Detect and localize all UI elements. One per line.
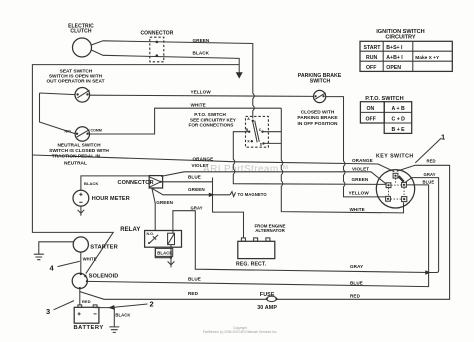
svg-text:SWITCH IS CLOSED WITH: SWITCH IS CLOSED WITH: [49, 148, 109, 154]
ground (starter): [34, 254, 44, 260]
label black (relay, boxed): [156, 248, 173, 256]
svg-text:1: 1: [441, 132, 445, 141]
svg-text:STARTER: STARTER: [90, 244, 118, 250]
svg-text:NEUTRAL SWITCH: NEUTRAL SWITCH: [57, 142, 101, 148]
wire green: clutch to PTO switch A: [91, 41, 254, 119]
wire violet: connector to key switch X: [161, 172, 386, 184]
svg-text:BLACK: BLACK: [193, 50, 210, 55]
svg-text:GREEN: GREEN: [352, 177, 369, 182]
svg-text:RELAY: RELAY: [120, 227, 140, 233]
svg-text:GRAY: GRAY: [350, 264, 363, 269]
svg-text:TRACTION PEDAL IN: TRACTION PEDAL IN: [52, 154, 101, 160]
wire green: PTO B to key switch X: [233, 132, 386, 185]
svg-text:RED: RED: [188, 291, 199, 296]
svg-text:3: 3: [46, 307, 50, 316]
svg-text:SEAT SWITCH: SEAT SWITCH: [60, 68, 93, 74]
svg-text:ALTERNATOR: ALTERNATOR: [255, 228, 285, 233]
svg-text:SWITCH IS OPEN WITH: SWITCH IS OPEN WITH: [49, 74, 103, 80]
svg-text:2: 2: [150, 299, 154, 308]
svg-text:CLOSED WITH: CLOSED WITH: [301, 109, 335, 115]
svg-text:Make X +Y: Make X +Y: [415, 55, 440, 61]
junction arrow (green/blue node): [209, 193, 214, 197]
svg-text:WHITE: WHITE: [83, 257, 97, 262]
wire black: clutch to chassis arrow: [91, 50, 239, 73]
wire gray: relay coil to gray rail: [173, 211, 430, 273]
wire frame: left outer vertical to solenoid: [32, 65, 239, 274]
svg-text:IN OFF POSITION: IN OFF POSITION: [298, 121, 339, 127]
svg-text:BLUE: BLUE: [350, 281, 363, 286]
ground arrow (relay): [168, 258, 175, 268]
svg-text:HOUR METER: HOUR METER: [92, 196, 130, 202]
svg-text:PARKING BRAKE: PARKING BRAKE: [297, 115, 338, 121]
svg-text:COMM: COMM: [91, 129, 102, 133]
svg-text:CIRCUITRY: CIRCUITRY: [385, 34, 416, 40]
svg-text:PartStream (c) 2005-2023 ARI N: PartStream (c) 2005-2023 ARI Network Ser…: [203, 330, 278, 334]
key switch terminal X: [386, 183, 391, 188]
wire white: starter to solenoid: [80, 252, 82, 273]
ground (battery): [109, 327, 119, 333]
key switch terminal B: [393, 173, 398, 178]
svg-text:GREEN: GREEN: [193, 38, 210, 43]
svg-text:RED: RED: [350, 293, 361, 298]
svg-text:GRAY: GRAY: [191, 205, 203, 210]
svg-text:A+B+ I: A+B+ I: [386, 55, 403, 61]
wire starter to ground: [39, 242, 73, 254]
seat switch: [46, 68, 104, 102]
svg-text:ORANGE: ORANGE: [193, 156, 214, 161]
svg-text:VIOLET: VIOLET: [192, 163, 209, 168]
svg-text:YELLOW: YELLOW: [349, 191, 370, 196]
P.T.O. switch (dashed box): [246, 116, 269, 147]
svg-text:ARI PartStream™: ARI PartStream™: [203, 164, 289, 175]
svg-text:START: START: [364, 45, 382, 51]
ground arrow (hour meter): [78, 206, 85, 216]
svg-text:ON: ON: [367, 106, 375, 112]
svg-text:GREEN: GREEN: [156, 200, 173, 205]
svg-text:N/O: N/O: [65, 129, 72, 133]
svg-text:30 AMP: 30 AMP: [257, 305, 277, 311]
svg-text:SWITCH: SWITCH: [310, 79, 331, 85]
wire blue: key switch to solenoid rail: [87, 185, 428, 287]
svg-text:A: A: [247, 117, 250, 121]
svg-text:BATTERY: BATTERY: [74, 325, 104, 331]
svg-text:FUSE: FUSE: [260, 292, 275, 298]
connector (top, dashed): [140, 31, 173, 62]
wire white/D vertical down and white row to key switch: [281, 108, 403, 213]
solenoid: [72, 273, 118, 290]
svg-text:N.O.: N.O.: [147, 232, 154, 236]
svg-text:RUN: RUN: [366, 55, 377, 61]
svg-text:OFF: OFF: [366, 116, 376, 122]
svg-text:C + D: C + D: [392, 116, 406, 122]
svg-text:OFF: OFF: [366, 65, 376, 71]
battery: [74, 305, 104, 331]
starter: [73, 237, 118, 252]
svg-text:RED: RED: [82, 299, 91, 304]
wire gray: key switch to gray rail: [405, 178, 439, 273]
svg-text:C: C: [259, 128, 262, 132]
wire orange row from frame to key switch B: [32, 155, 394, 172]
wire PTO D to white vertical: [265, 142, 282, 144]
svg-text:RED: RED: [427, 158, 436, 163]
wire white: neutral switch to key switch S: [90, 108, 282, 134]
svg-text:BLACK: BLACK: [157, 251, 172, 256]
key switch terminal S: [402, 197, 407, 202]
hour meter: [73, 181, 130, 206]
connector (lower): [118, 176, 163, 188]
regulator rectifier: [236, 223, 286, 267]
key switch dotted links: [389, 178, 405, 199]
svg-text:FOR CONNECTIONS: FOR CONNECTIONS: [189, 123, 234, 128]
svg-text:NEUTRAL: NEUTRAL: [64, 161, 87, 167]
key switch: [376, 153, 415, 208]
svg-text:CLUTCH: CLUTCH: [70, 29, 91, 35]
key mark: [399, 176, 404, 182]
wire black: battery to ground: [95, 308, 114, 327]
svg-text:VIOLET: VIOLET: [352, 167, 369, 172]
svg-text:REG. RECT.: REG. RECT.: [236, 261, 267, 267]
svg-text:OUT OPERATOR IN SEAT: OUT OPERATOR IN SEAT: [46, 79, 104, 85]
key switch terminal Y: [402, 182, 407, 187]
gray rail junction arrow: [425, 270, 431, 274]
P.T.O. switch table: [360, 96, 411, 133]
svg-text:B + E: B + E: [392, 127, 406, 133]
wire PTO C to white vertical: [264, 131, 282, 133]
ignition switch circuitry table: [360, 29, 452, 72]
parking brake switch: [297, 73, 341, 127]
neutral switch: [49, 127, 109, 167]
svg-text:KEY SWITCH: KEY SWITCH: [376, 153, 414, 159]
seat switch branch: [40, 93, 76, 134]
svg-text:BLUE: BLUE: [188, 276, 201, 281]
svg-text:ORANGE: ORANGE: [352, 158, 373, 163]
svg-text:BLACK: BLACK: [84, 181, 99, 186]
wire blue: connector to reg rect junction: [163, 178, 244, 238]
svg-text:OPEN: OPEN: [386, 65, 401, 71]
svg-text:SOLENOID: SOLENOID: [89, 274, 119, 280]
svg-text:GRAY: GRAY: [424, 172, 436, 177]
magneto break symbol: [230, 192, 236, 197]
wire red: solenoid to battery: [79, 288, 81, 305]
electric clutch: [68, 24, 94, 58]
svg-text:D: D: [260, 143, 263, 147]
wire green: connector to relay: [152, 188, 155, 230]
svg-text:BLUE: BLUE: [423, 180, 435, 185]
wire hour meter to connector: [81, 176, 149, 190]
wire yellow row: seat switch to parking brake to key switch A: [90, 95, 386, 197]
svg-text:WHITE: WHITE: [350, 207, 365, 212]
relay: [120, 227, 181, 247]
svg-text:BLACK: BLACK: [115, 313, 130, 318]
svg-text:CONNECTOR: CONNECTOR: [140, 31, 173, 37]
fuse F1 30A: [257, 292, 277, 311]
svg-text:A + B: A + B: [392, 106, 405, 112]
svg-text:GREEN: GREEN: [188, 187, 205, 192]
svg-text:YELLOW: YELLOW: [191, 89, 212, 94]
ground arrow (clutch black): [236, 72, 243, 78]
key switch terminal A: [386, 196, 391, 201]
svg-text:B+S+ I: B+S+ I: [386, 45, 403, 51]
svg-text:TO MAGNETO: TO MAGNETO: [238, 192, 268, 197]
svg-text:WHITE: WHITE: [191, 103, 206, 108]
svg-text:BLUE: BLUE: [188, 175, 201, 180]
svg-text:CONNECTOR: CONNECTOR: [118, 180, 154, 186]
wire red: key switch B to red rail: [80, 165, 450, 299]
wire green: connector to magneto: [152, 188, 230, 195]
relay ground node: [155, 245, 171, 258]
